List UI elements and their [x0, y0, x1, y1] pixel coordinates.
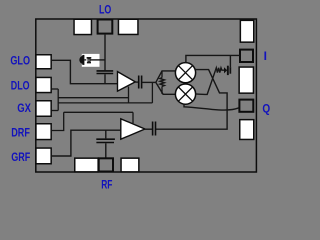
wire C5 to RF pad	[105, 143, 107, 157]
pad GX	[36, 101, 51, 117]
capacitor C3 polarized in I summing path	[224, 67, 227, 73]
pad GND top-left	[74, 19, 91, 34]
capacitor C4 series RF (plates)	[153, 122, 156, 136]
wire GX feed	[52, 110, 59, 112]
pad GND right-lower	[240, 120, 254, 140]
svg-text:DRF: DRF	[11, 125, 30, 139]
svg-text:GX: GX	[17, 101, 31, 115]
pad GND right-mid	[239, 67, 253, 93]
wire bus B up to LO line	[151, 82, 153, 103]
wire C3 up to I line	[229, 55, 231, 67]
wire U2 output to RC network (crossover diagonal)	[196, 70, 216, 94]
wire U2 bottom to Q pad	[184, 104, 239, 110]
wire plate to micro resistor	[84, 59, 86, 61]
wire bias bus D (DRF)	[64, 111, 133, 113]
Wilkinson divider lower branch	[156, 82, 176, 94]
phase shifter cell white box	[82, 54, 100, 67]
chip die border	[36, 19, 257, 172]
svg-text:DLO: DLO	[11, 78, 30, 92]
wire RF input stem upper	[105, 130, 107, 138]
capacitor straight plate	[82, 55, 84, 65]
wire bias bus A (DLO)	[58, 97, 128, 99]
pad DRF	[36, 124, 51, 140]
wire GLO to LO amp input	[52, 60, 117, 83]
mixer U1 (upper)	[175, 63, 195, 83]
wire LO pad down-stem	[104, 35, 106, 71]
svg-text:Q: Q	[262, 101, 270, 115]
Wilkinson divider upper branch	[156, 71, 176, 83]
pad GRF	[36, 148, 51, 164]
mixer U2 (lower)	[175, 84, 195, 104]
capacitor C1 shunt at LO input (plates)	[97, 71, 114, 74]
wire below C1 to input bus	[104, 74, 106, 83]
wire U1 output to I pad	[186, 55, 240, 63]
wire bus A to A1 drain	[128, 87, 130, 103]
pad LO (signal pad)	[98, 20, 113, 34]
svg-text:GRF: GRF	[11, 150, 30, 164]
pad GND top-right-of-LO	[118, 19, 138, 34]
wire C2 to divider apex	[142, 81, 156, 83]
pad GND bottom-right	[121, 158, 139, 172]
capacitor curved plate (half disk)	[79, 56, 82, 64]
capacitor C2 series LO (plates)	[139, 76, 142, 89]
micro resistor (dense element blob)	[87, 57, 92, 63]
resistor R1 divider isolation (vertical zigzag)	[161, 72, 163, 78]
wire bias bus B (GX)	[58, 102, 152, 104]
svg-text:LO: LO	[99, 2, 111, 16]
svg-text:RF: RF	[101, 177, 112, 191]
wire bias junction vertical	[57, 89, 59, 111]
pad GLO	[36, 55, 51, 69]
svg-text:I: I	[264, 49, 267, 63]
wire RF feed to U1 (with crossover)	[156, 70, 227, 130]
resistor R2 in I summing path (zigzag)	[216, 68, 225, 73]
wire bus D to A2 drain	[132, 112, 134, 123]
pad I (signal pad)	[240, 50, 253, 62]
pad DLO	[36, 77, 51, 92]
pad GND top-right corner	[240, 20, 253, 42]
wire micro resistor to LO line	[90, 59, 105, 61]
op-amp LO amplifier A1	[118, 72, 136, 92]
wire A1 output	[135, 81, 138, 83]
wire GRF to RF amp input	[52, 130, 121, 156]
wire DRF feed	[52, 112, 64, 130]
wire DLO feed	[52, 88, 59, 90]
capacitor C5 shunt at RF input (plates)	[96, 139, 115, 142]
wire A2 tip to C4	[145, 128, 152, 130]
pad RF (signal pad)	[99, 158, 113, 171]
op-amp RF amplifier A2	[121, 119, 145, 139]
pad Q (signal pad)	[239, 100, 253, 112]
svg-text:GLO: GLO	[10, 54, 30, 68]
pad GND bottom-left	[75, 158, 98, 172]
